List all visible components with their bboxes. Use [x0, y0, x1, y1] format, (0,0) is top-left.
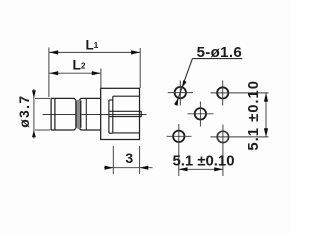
callout leader arrow lower [174, 98, 178, 106]
bottom leg upper edge [113, 132, 140, 134]
svg-text:ø3.7: ø3.7 [16, 95, 32, 128]
callout underline [192, 58, 242, 60]
hole BL circle [173, 131, 184, 142]
dimension 5.1 bottom arrow right [214, 167, 223, 171]
barrel groove shading [75, 100, 81, 129]
dimension L1 arrow left [49, 50, 58, 54]
dimension 5.1 bottom arrow left [179, 167, 188, 171]
dimension dia 3.7 extension line bottom [35, 129, 50, 131]
dimension 5.1 right arrow top [264, 93, 268, 102]
dimension dia 3.7 arrow bottom [32, 130, 36, 137]
dimension 5.1 right arrow bottom [264, 128, 268, 137]
flange outer rectangle [101, 88, 140, 139]
callout leader arrow upper [182, 80, 186, 87]
dimension L1 arrow right [131, 50, 140, 54]
dimension L1 line [49, 51, 140, 53]
groove wall right [80, 101, 82, 128]
dimension L2 arrow left [49, 71, 58, 75]
dimension L2 extension line right [100, 69, 102, 89]
dimension 3 extension line left [112, 146, 114, 174]
svg-text:5.1 ±0.10: 5.1 ±0.10 [246, 80, 262, 151]
dimension L2 arrow right [92, 71, 101, 75]
dimension 3 line [104, 167, 153, 169]
dimension 3 arrow left [105, 166, 114, 170]
hole TR crosshair [211, 81, 269, 106]
dimension 5.1 bottom line [179, 168, 223, 170]
dimension L1 extension line right [139, 48, 141, 88]
hole TL circle [175, 87, 186, 98]
centerline axis of connector [43, 114, 147, 116]
dimension dia 3.7 line [33, 89, 35, 139]
barrel body outline [51, 98, 101, 130]
groove wall left [75, 101, 77, 128]
hole BR crosshair [211, 125, 269, 177]
dimension 5.1 right line [265, 93, 267, 137]
hole BR circle [217, 131, 228, 142]
flange inner step [109, 96, 113, 133]
hole center crosshair [188, 102, 214, 127]
hole TL crosshair [168, 81, 193, 106]
svg-text:3: 3 [125, 150, 133, 166]
barrel step line [85, 99, 87, 130]
center pin [109, 111, 141, 116]
svg-text:5.1 ±0.10: 5.1 ±0.10 [173, 153, 235, 169]
dimension 3 arrow right [140, 166, 149, 170]
dimension dia 3.7 arrow top [32, 90, 36, 98]
dimension L2 line [49, 72, 100, 74]
hole BL crosshair [167, 124, 192, 176]
dimension 3 extension line right [139, 146, 141, 174]
dimension dia 3.7 extension line top [35, 97, 50, 99]
top leg lower edge [113, 95, 140, 97]
callout leader line [176, 59, 193, 106]
hole TR circle [217, 87, 228, 98]
dimension L1 extension line left [48, 48, 50, 98]
hole center circle [195, 108, 206, 119]
